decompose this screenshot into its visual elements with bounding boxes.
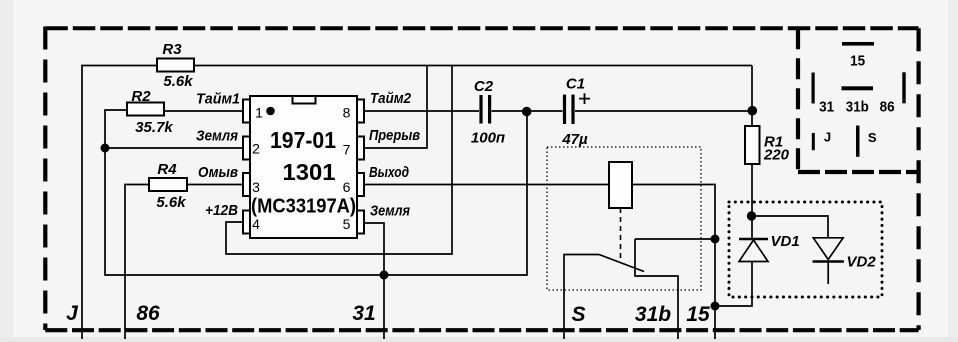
svg-text:C2: C2 (474, 78, 494, 95)
wire: ground net (R2 left, pin2, down, across, up to C1/C2 junction) (105, 110, 527, 275)
svg-text:S: S (571, 303, 585, 326)
svg-text:6: 6 (343, 179, 351, 195)
wire: R1 bottom into diode box (751, 164, 753, 239)
relay box (dotted) (547, 147, 701, 290)
wire: R3 right along top to +12V net (194, 65, 752, 67)
relay fixed contact to 31b and 15 (635, 239, 678, 339)
pin stubs left 1-4 (243, 100, 250, 123)
svg-text:86: 86 (880, 99, 895, 116)
svg-text:S: S (868, 130, 877, 145)
pin1 index dot (266, 107, 275, 116)
svg-text:R3: R3 (162, 41, 182, 58)
pinout blade S (856, 126, 877, 157)
pin stubs right 8-5 (357, 100, 364, 123)
relay switch arm and S contact (564, 255, 599, 340)
wire: pin6 Выход to relay coil (364, 184, 609, 186)
svg-text:Тайм1: Тайм1 (196, 91, 240, 108)
svg-text:2: 2 (252, 141, 260, 157)
svg-text:J: J (66, 302, 79, 325)
svg-text:7: 7 (343, 142, 351, 158)
wire: pin8 Тайм2 to C2 (364, 110, 479, 112)
page left gray strip (0, 0, 13, 342)
svg-text:8: 8 (343, 105, 351, 121)
svg-text:35.7k: 35.7k (135, 119, 173, 136)
wire: branch to VD2 (752, 216, 828, 238)
junction dot 15/VD return (711, 302, 720, 311)
capacitor C2 100п (471, 78, 505, 147)
svg-text:Прерыв: Прерыв (369, 127, 420, 144)
junction dot ground to C1/C2 (522, 107, 532, 117)
page bottom gray strip (0, 337, 958, 342)
pinout blade 15 (842, 42, 874, 70)
svg-text:31b: 31b (635, 303, 671, 326)
pinout blade 31b (842, 86, 874, 115)
relay coil K1 (609, 162, 632, 208)
wire: R4 to pin3 (187, 184, 243, 186)
svg-text:(MC33197A): (MC33197A) (251, 196, 356, 218)
svg-text:15: 15 (686, 303, 710, 326)
junction dot VD branch (747, 211, 756, 220)
capacitor C1 47µ (561, 76, 590, 149)
svg-text:5.6k: 5.6k (163, 73, 193, 90)
wire: branch down to pin7 (interrupt) (364, 66, 427, 149)
svg-text:4: 4 (252, 216, 260, 232)
IC pin name labels (196, 90, 420, 220)
resistor R2 (127, 88, 173, 136)
svg-text:Омыв: Омыв (198, 164, 238, 181)
wire: C1 to R1 top (575, 110, 752, 112)
connector pinout box (dashed) (798, 28, 919, 172)
svg-text:Тайм2: Тайм2 (370, 90, 412, 107)
pinout blade J (812, 130, 831, 151)
svg-text:15: 15 (850, 53, 865, 70)
svg-text:5: 5 (343, 216, 351, 232)
svg-text:5.6k: 5.6k (156, 194, 186, 211)
wire: branch down to pin4 +12V (226, 66, 452, 255)
page right gray strip (948, 0, 958, 342)
svg-text:R2: R2 (131, 88, 151, 105)
resistor R1 220 (745, 126, 790, 164)
svg-text:197-01: 197-01 (270, 127, 336, 153)
junction dot ground/R2 (101, 144, 110, 153)
wire: coil right to contact node (632, 185, 715, 240)
svg-text:31: 31 (819, 99, 834, 116)
diode VD2 (813, 238, 877, 284)
diode box (dotted) (729, 202, 882, 297)
svg-text:+12В: +12В (205, 202, 238, 219)
svg-text:86: 86 (136, 302, 160, 325)
IC U1 197-01 1301 (MC33197A) (243, 96, 364, 238)
svg-text:1301: 1301 (283, 159, 336, 185)
wire: net 15 down to bottom (714, 239, 716, 339)
wire: top net down to R1 (751, 66, 753, 127)
svg-text:Выход: Выход (369, 164, 409, 181)
wire: pin1 to R2 (164, 110, 243, 112)
svg-text:1: 1 (255, 105, 263, 121)
junction dot R1 top (748, 106, 758, 116)
svg-text:31: 31 (352, 302, 375, 325)
wire: VD1 bottom to net 15 (715, 262, 752, 307)
pinout blade 31 (812, 73, 835, 116)
svg-text:Земля: Земля (196, 128, 238, 145)
svg-text:R4: R4 (157, 161, 177, 178)
svg-text:3: 3 (252, 179, 260, 195)
svg-text:J: J (824, 130, 831, 145)
svg-text:47µ: 47µ (561, 131, 588, 148)
junction dot contact/15 (711, 235, 720, 244)
svg-text:VD2: VD2 (847, 254, 877, 271)
svg-text:100п: 100п (471, 130, 505, 147)
junction dot pin5/ground (380, 271, 389, 280)
pinout blade 86 (880, 72, 906, 115)
relay armature link (dashed) (620, 208, 622, 260)
diode VD1 (739, 233, 800, 262)
wire: net 86 (R4 left down to bottom pin 86) (125, 185, 149, 340)
svg-text:C1: C1 (566, 76, 585, 93)
svg-text:220: 220 (763, 147, 790, 164)
svg-text:31b: 31b (846, 99, 869, 116)
svg-text:Земля: Земля (370, 203, 410, 220)
wire: C2 to C1 (492, 110, 563, 112)
wire: pin2 to ground net (105, 147, 243, 149)
resistor R3 (157, 41, 194, 90)
svg-text:VD1: VD1 (771, 233, 800, 250)
wire: pin5 Земля down to ground dot (364, 223, 384, 339)
resistor R4 (149, 161, 187, 211)
wire: net J (R3 left to bottom pin J) (82, 66, 157, 340)
bottom terminal labels (66, 302, 710, 326)
